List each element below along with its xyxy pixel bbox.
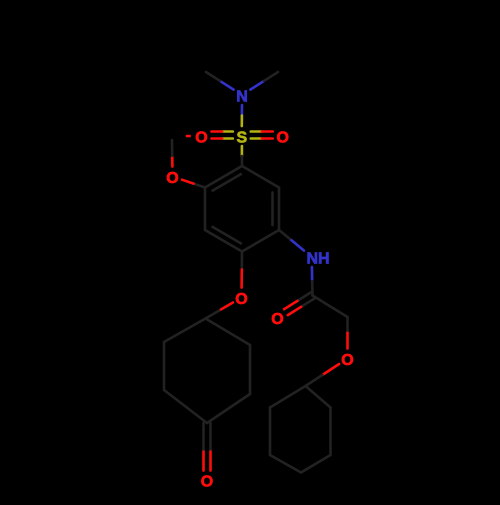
svg-text:O: O: [166, 170, 178, 187]
benzene ring bond C2-C3: [278, 188, 281, 231]
benzene ring bond C5-C6: [204, 188, 207, 231]
svg-text:NH: NH: [306, 251, 329, 268]
bond C6-O methoxy: [182, 180, 205, 188]
ring A bond V1-V2: [206, 319, 251, 346]
aromatic inner line C2=C3: [271, 193, 274, 226]
double bond S=O left: [212, 132, 233, 139]
small red dash artifact near sulfonyl O: [186, 135, 191, 138]
benzene ring bond C3-C4: [242, 230, 279, 252]
bond NH-C7: [311, 267, 314, 296]
aromatic inner line C6=C1: [213, 174, 241, 191]
bond C4-O1: [240, 252, 243, 288]
ring B bond W3-W4: [301, 455, 331, 473]
double bond S=O right: [251, 132, 273, 139]
benzene ring bond C1-C2: [242, 166, 279, 188]
ring A bond V5-V6: [163, 342, 166, 390]
bond CH2-O2: [346, 317, 349, 349]
bond N1-CH3 left methyl: [206, 72, 234, 90]
bond O-CH3 methoxy: [171, 140, 174, 167]
ring B bond W1-W2: [306, 386, 331, 408]
bond O1-V1: [206, 303, 233, 319]
ring A bond V6-V1: [164, 319, 206, 343]
benzene ring bond C4-C5: [205, 230, 242, 252]
ring B bond W5-W6: [269, 408, 272, 456]
svg-text:O: O: [271, 311, 283, 328]
bond S-C1: [241, 146, 244, 166]
svg-text:O: O: [235, 291, 247, 308]
benzene ring bond C6-C1: [205, 166, 242, 188]
bond N1-CH3 right methyl: [250, 72, 278, 90]
svg-text:O: O: [341, 352, 353, 369]
ring A bond V4-V5: [164, 390, 207, 423]
aromatic inner line C4=C5: [213, 227, 241, 244]
bond N1-S: [241, 105, 244, 126]
svg-text:S: S: [236, 130, 247, 147]
amide double bond C7=O: [284, 293, 314, 316]
ketone double bond V4=O3: [204, 423, 211, 471]
ring B bond W6-W1: [270, 386, 306, 408]
svg-text:O: O: [201, 474, 213, 491]
ring A bond V3-V4: [207, 394, 250, 423]
ring A bond V2-V3: [249, 345, 252, 394]
svg-text:O: O: [276, 130, 288, 147]
bond O2-W1: [306, 364, 340, 386]
svg-text:N: N: [236, 89, 248, 106]
bond C3-NH: [279, 230, 304, 251]
ring B bond W4-W5: [270, 455, 301, 473]
svg-text:O: O: [195, 130, 207, 147]
bond C7-CH2: [313, 296, 348, 318]
ring B bond W2-W3: [329, 408, 332, 456]
